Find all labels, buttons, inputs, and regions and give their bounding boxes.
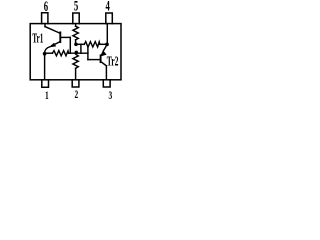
transistor Tr2 emitter arrow <box>101 51 106 56</box>
resistor R4 vertical <box>73 54 78 68</box>
pin number 6 <box>44 0 48 14</box>
wire R3 to node B <box>100 43 105 45</box>
pin number 4 <box>106 0 110 14</box>
svg-text:3: 3 <box>108 90 112 102</box>
wire R4 to pin 2 <box>75 68 77 80</box>
pin 5 stub <box>73 13 79 24</box>
node dot A <box>74 42 78 46</box>
wire base rail <box>69 52 88 54</box>
label Tr2 <box>107 54 119 69</box>
wire rail down to Tr2 base <box>87 47 89 60</box>
pin number 2 <box>74 89 78 102</box>
wire pin5 into body <box>75 24 77 27</box>
wire emitter curve to node <box>45 47 50 52</box>
transistor Tr1 base wire <box>61 36 70 38</box>
pin number 3 <box>108 90 112 103</box>
wire R1 to node A <box>75 40 77 43</box>
resistor R1 vertical <box>73 26 78 40</box>
transistor Tr1 emitter wire <box>52 42 60 46</box>
svg-text:2: 2 <box>74 89 78 102</box>
transistor Tr2 emitter wire <box>103 47 106 51</box>
wire node A to R3 <box>77 43 84 45</box>
label Tr1 <box>32 31 43 46</box>
resistor R3 horizontal <box>84 42 100 47</box>
wire pin4 to node B <box>106 24 108 43</box>
pin 3 stub <box>103 80 110 87</box>
svg-text:4: 4 <box>106 0 110 14</box>
wire Tr2 base <box>88 59 101 61</box>
package body outline <box>30 24 121 80</box>
pin number 1 <box>45 89 49 102</box>
node dot B <box>105 43 109 47</box>
svg-text:1: 1 <box>45 89 49 102</box>
pin 1 stub <box>42 80 49 87</box>
wire pin6 into body <box>44 24 46 27</box>
svg-text:Tr2: Tr2 <box>107 54 119 69</box>
wire node to R2 <box>46 52 53 54</box>
transistor Tr1 base bar <box>59 32 61 42</box>
wire node to pin 1 <box>44 55 46 80</box>
wire node A down to rail <box>80 44 82 53</box>
transistor Tr1 emitter arrow <box>50 43 56 47</box>
transistor Tr2 base bar <box>100 55 102 62</box>
pin number 5 <box>74 0 78 14</box>
node dot rail <box>75 51 79 55</box>
pin 2 stub <box>72 80 79 87</box>
pin 4 stub <box>106 13 113 24</box>
transistor Tr2 collector wire <box>101 62 107 66</box>
resistor R2 horizontal <box>52 51 68 56</box>
svg-text:6: 6 <box>44 0 48 14</box>
node dot Tr1 emitter <box>43 52 47 56</box>
svg-text:5: 5 <box>74 0 78 14</box>
wire Tr1 base down to rail <box>69 37 71 53</box>
svg-text:Tr1: Tr1 <box>32 31 43 46</box>
wire Tr2 collector to pin 3 <box>105 66 107 80</box>
pin 6 stub <box>42 13 48 24</box>
transistor Tr1 collector wire <box>45 27 60 33</box>
